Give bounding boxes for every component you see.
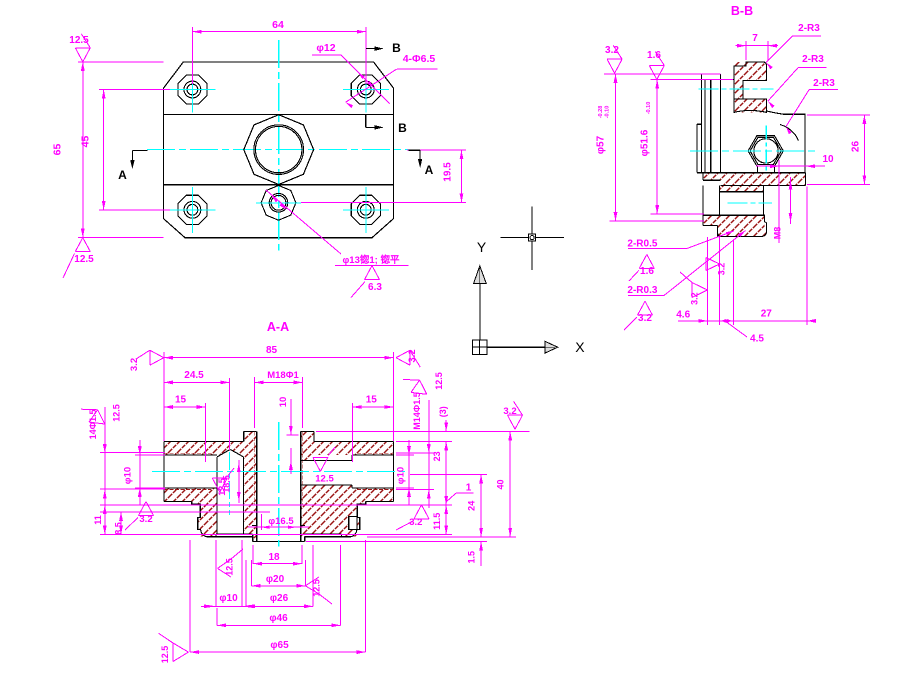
svg-text:12.5: 12.5 — [160, 646, 170, 664]
B-B hatched column strip — [734, 81, 743, 99]
svg-text:4.5: 4.5 — [750, 334, 764, 345]
A-A dimension 23 right — [445, 441, 447, 505]
A-A dimension phi10 bottom — [215, 540, 217, 606]
A-A dimension M18x1 — [254, 377, 256, 428]
svg-text:12.5: 12.5 — [434, 372, 444, 390]
A-A centerline vertical hole — [228, 452, 230, 515]
B-B mid piece outline — [734, 99, 767, 113]
A-A foot right profile — [342, 502, 366, 537]
svg-text:2-R0.3: 2-R0.3 — [627, 285, 657, 296]
A-A thread dashed right — [357, 452, 393, 454]
B-B centerline lower hole — [727, 202, 772, 204]
A-A roughness 12.5 mid-left — [212, 478, 220, 492]
A-A hatched hub column left — [243, 431, 256, 536]
A-A dimension phi65 bottom — [189, 540, 191, 652]
UCS X axis — [487, 346, 545, 348]
A-A foot left profile — [192, 502, 216, 537]
A-A bore left lines — [164, 454, 217, 456]
A-A groove right outline — [349, 517, 357, 530]
A-A dimension (3) right — [445, 420, 447, 431]
svg-text:(3): (3) — [438, 406, 448, 417]
A-A central bore walls — [256, 431, 258, 541]
svg-text:3.2: 3.2 — [407, 349, 418, 362]
A-A hatched band right — [301, 441, 394, 455]
section arrow A right — [409, 149, 420, 151]
plate inner line lower — [164, 184, 394, 186]
svg-text:3.2: 3.2 — [605, 45, 619, 56]
svg-text:15: 15 — [366, 395, 378, 406]
central boss octagon — [244, 115, 314, 185]
svg-text:11.5: 11.5 — [432, 513, 442, 530]
svg-text:3.2: 3.2 — [129, 358, 140, 371]
crosshair cursor — [500, 237, 564, 239]
A-A foot left step white — [192, 504, 201, 517]
svg-text:φ12: φ12 — [316, 42, 335, 54]
centerline horizontal top view — [147, 149, 409, 151]
B-B centerline horizontal — [690, 150, 817, 152]
B-B foot outline — [702, 215, 704, 225]
A-A hatched band left — [164, 441, 257, 455]
B-B sideways roughness 3.2 first — [706, 258, 720, 265]
A-A dimension 14x1.5 left — [104, 407, 106, 506]
svg-text:φ20: φ20 — [266, 574, 285, 585]
svg-text:φ46: φ46 — [269, 613, 288, 624]
A-A drill cone white — [217, 449, 243, 456]
A-A drill cone lines — [217, 449, 230, 456]
B-B dimension 10 — [778, 160, 780, 243]
svg-text:M14Φ1.5: M14Φ1.5 — [412, 392, 422, 429]
svg-text:X: X — [575, 339, 585, 355]
B-B bottom dimension chain 4.6 4.5 27 — [678, 320, 812, 322]
svg-text:φ57: φ57 — [596, 135, 607, 154]
section arrow B bottom — [365, 114, 367, 127]
svg-text:12.5: 12.5 — [217, 478, 227, 496]
B-B lobe pocket arc — [780, 125, 799, 141]
B-B dimension M8 — [790, 177, 792, 224]
A-A dimension phi26 bottom — [245, 560, 247, 606]
A-A dimension phi16.5 — [261, 514, 263, 530]
A-A hatched lower band left — [164, 488, 217, 502]
svg-text:65: 65 — [52, 144, 64, 156]
svg-text:26: 26 — [851, 141, 862, 153]
svg-text:φ26: φ26 — [270, 593, 289, 604]
A-A dimension 15 right — [352, 403, 354, 462]
svg-text:18: 18 — [268, 552, 280, 563]
A-A roughness 12.5 left — [89, 422, 105, 424]
B-B hatched foot lower — [717, 225, 766, 236]
A-A dimension 11 left — [100, 504, 452, 506]
A-A bore right inner white — [301, 461, 352, 486]
svg-text:3.2: 3.2 — [638, 313, 652, 324]
svg-text:12.5: 12.5 — [315, 474, 334, 485]
A-A roughness 12.5 right — [411, 392, 427, 394]
section arrow B top — [366, 48, 382, 50]
A-A thread dashed left — [164, 452, 211, 454]
plate inner line upper — [164, 113, 394, 115]
A-A dimension 15 left — [205, 403, 207, 462]
svg-text:6.3: 6.3 — [368, 282, 382, 293]
svg-text:-0.28: -0.28 — [598, 106, 604, 119]
svg-text:19.5: 19.5 — [443, 162, 454, 182]
A-A vertical hole walls — [216, 457, 218, 534]
B-B roughness 1.6 lower — [647, 254, 655, 268]
counterbored hole top-left 4-Φ6.5 — [178, 75, 207, 104]
A-A dimension phi10 right — [408, 440, 410, 505]
B-B dimension 26 — [807, 114, 870, 116]
svg-text:7: 7 — [752, 33, 758, 44]
svg-text:φ16.5: φ16.5 — [268, 516, 294, 527]
A-A dimension phi20 bottom — [251, 560, 253, 586]
B-B hatched main band — [697, 173, 806, 186]
A-A dimension 85 — [163, 352, 165, 441]
B-B hex to band lines — [757, 167, 759, 173]
B-B hatched flange top — [734, 62, 767, 81]
svg-text:B: B — [392, 41, 401, 55]
svg-text:1: 1 — [466, 483, 472, 494]
svg-text:15: 15 — [175, 395, 187, 406]
svg-text:40: 40 — [496, 479, 506, 489]
svg-text:3.2: 3.2 — [409, 517, 422, 528]
A-A hatched boss bottom — [253, 515, 305, 542]
A-A roughness 12.5 bottom right — [305, 577, 319, 586]
svg-text:23: 23 — [432, 451, 442, 461]
A-A recess left outline — [216, 534, 253, 537]
svg-text:64: 64 — [272, 19, 284, 31]
A-A lower band bottoms — [164, 501, 192, 503]
B-B lower hole walls — [702, 185, 704, 215]
B-B centerline upper hole — [699, 88, 774, 90]
A-A dimension 11.5 right — [445, 505, 447, 534]
svg-text:12.5: 12.5 — [225, 558, 235, 576]
B-B extension top-left — [604, 73, 721, 75]
roughness 12.5 bottom-left — [83, 238, 91, 252]
svg-text:2-R0.5: 2-R0.5 — [627, 239, 657, 250]
svg-text:10: 10 — [822, 154, 834, 165]
A-A centerline vertical center — [278, 422, 280, 546]
A-A dimension 24.5 — [228, 378, 230, 450]
svg-text:Y: Y — [477, 239, 487, 255]
section arrow A left — [132, 149, 147, 151]
roughness 6.3 on phi13 — [372, 266, 380, 280]
svg-text:12.5: 12.5 — [112, 404, 122, 422]
central boss circles — [254, 125, 304, 175]
UCS origin box — [472, 340, 487, 355]
counterbored hole bottom-left 4-Φ6.5 — [178, 195, 207, 224]
svg-text:φ10: φ10 — [396, 467, 407, 484]
svg-text:2-R3: 2-R3 — [798, 23, 820, 34]
A-A recess right outline — [305, 534, 342, 537]
B-B centerline vertical hex — [765, 126, 767, 172]
B-B dimension phi51.6 — [656, 80, 658, 215]
A-A hatched foot left — [192, 502, 217, 537]
A-A arm end faces — [163, 441, 165, 501]
svg-text:φ65: φ65 — [270, 640, 289, 651]
svg-text:12.5: 12.5 — [74, 254, 94, 265]
counterbored hole top-right 4-Φ6.5 — [351, 75, 380, 104]
A-A roughness 12.5 bottom hole — [218, 559, 232, 568]
svg-text:-0.10: -0.10 — [605, 106, 611, 119]
B-B roughness 3.2 lower — [645, 301, 653, 315]
svg-text:M8: M8 — [773, 227, 783, 240]
A-A centerline horizontal — [152, 471, 405, 473]
A-A bore right lines — [352, 454, 393, 456]
A-A dimension phi10 left — [139, 440, 141, 505]
svg-text:11: 11 — [93, 515, 103, 525]
A-A hatched hub column right — [301, 431, 314, 536]
A-A recess left white — [216, 534, 253, 537]
A-A dimension 24 right — [480, 474, 482, 537]
dimension 45 — [99, 89, 170, 91]
svg-text:B-B: B-B — [731, 4, 753, 18]
A-A roughness 3.2 right lower — [422, 505, 430, 519]
B-B sideways roughness 3.2 second — [692, 283, 707, 291]
A-A roughness 12.5 bottom left — [173, 643, 188, 652]
A-A roughness 3.2 at 85 left — [150, 358, 164, 366]
A-A band top edges — [164, 440, 244, 442]
svg-text:45: 45 — [80, 136, 92, 148]
B-B hatched mid strip — [720, 185, 764, 191]
A-A hatched lower band right — [352, 488, 393, 502]
A-A bore left white — [164, 455, 217, 488]
B-B left plate edge lines — [700, 74, 702, 173]
top view plate outline — [164, 62, 394, 238]
svg-text:14Φ1.5: 14Φ1.5 — [88, 409, 98, 439]
B-B top flange outline — [734, 62, 767, 99]
B-B dimension 7 — [745, 41, 747, 60]
svg-text:3.2: 3.2 — [690, 292, 700, 305]
svg-text:1.5: 1.5 — [467, 551, 477, 564]
svg-text:4-Φ6.5: 4-Φ6.5 — [403, 53, 436, 65]
A-A extension lines right — [316, 430, 530, 432]
B-B hatched mid piece — [734, 99, 767, 113]
svg-text:1.6: 1.6 — [647, 50, 661, 61]
svg-text:A-A: A-A — [267, 320, 289, 334]
svg-text:27: 27 — [761, 309, 773, 320]
svg-text:85: 85 — [266, 345, 278, 356]
svg-text:φ13锪1; 锪平: φ13锪1; 锪平 — [343, 254, 400, 266]
svg-text:4.6: 4.6 — [676, 310, 690, 321]
B-B dimension phi57 — [615, 74, 617, 221]
A-A dimension 18.5 — [238, 460, 240, 503]
A-A vertical hole white — [217, 457, 243, 534]
label phi13 spot-face with leader — [266, 190, 341, 254]
svg-text:B: B — [398, 121, 407, 135]
svg-text:φ10: φ10 — [219, 593, 238, 604]
counterbored hole bottom-right 4-Φ6.5 — [351, 195, 380, 224]
UCS Y axis — [479, 283, 481, 347]
svg-text:24.5: 24.5 — [184, 370, 204, 381]
svg-text:24: 24 — [467, 501, 477, 511]
svg-text:φ10: φ10 — [122, 467, 133, 484]
A-A dimension 1.5 right — [480, 542, 482, 567]
B-B hex socket — [748, 136, 783, 166]
B-B bottom extension lines — [706, 237, 708, 325]
A-A boss bottom — [252, 537, 254, 542]
A-A boss ledges — [252, 525, 257, 527]
A-A dimension M14x1.5 right — [428, 400, 430, 508]
A-A roughness 3.2 lower left — [146, 502, 154, 516]
dimension 64 — [191, 27, 193, 84]
bottom-center hole phi13 — [261, 185, 296, 220]
B-B hatched foot upper — [703, 215, 765, 225]
svg-text:φ51.6: φ51.6 — [640, 129, 651, 156]
svg-text:8.5: 8.5 — [114, 522, 124, 535]
svg-text:A: A — [425, 163, 434, 177]
svg-text:1.6: 1.6 — [640, 266, 654, 277]
A-A dimension 18 bottom — [252, 545, 254, 564]
A-A hub top edges — [244, 430, 257, 432]
svg-text:3.2: 3.2 — [503, 406, 516, 417]
A-A dimension phi46 bottom — [216, 608, 218, 625]
A-A foot right step white — [357, 504, 366, 517]
A-A roughness 3.2 at 85 right — [396, 350, 410, 358]
B-B lobe outline — [767, 111, 805, 173]
svg-text:-0.10: -0.10 — [646, 102, 652, 115]
A-A roughness 12.5 mid-right — [313, 457, 321, 471]
A-A bore right outer white — [352, 455, 393, 488]
dimension 65 — [78, 61, 164, 63]
A-A central bore white — [257, 431, 301, 541]
svg-text:A: A — [118, 168, 127, 182]
centerline vertical top view — [278, 40, 280, 250]
A-A groove right white — [349, 517, 357, 530]
svg-text:3.2: 3.2 — [139, 514, 152, 525]
dimension 19.5 — [407, 149, 466, 151]
svg-text:3.2: 3.2 — [717, 263, 727, 276]
A-A dimension 8.5 left — [100, 511, 270, 513]
A-A dimension 10 depth — [286, 434, 298, 436]
svg-text:M18Φ1: M18Φ1 — [267, 370, 299, 381]
svg-text:2-R3: 2-R3 — [802, 54, 824, 65]
A-A recess right white — [305, 534, 342, 537]
A-A roughness 3.2 right top — [508, 415, 516, 429]
A-A dimension 40 right — [509, 431, 511, 537]
svg-text:2-R3: 2-R3 — [813, 78, 835, 89]
A-A hatched right flange — [301, 485, 366, 537]
svg-text:10: 10 — [278, 397, 289, 408]
B-B left small step — [697, 123, 702, 125]
B-B band outline — [697, 172, 806, 174]
A-A central thread dashed — [254, 431, 256, 505]
